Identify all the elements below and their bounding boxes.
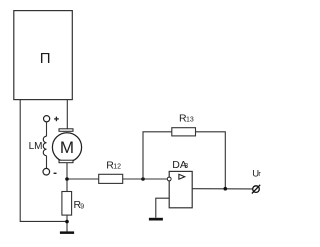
node junction motor/R12 bbox=[65, 177, 69, 181]
inverting input bubble bbox=[167, 177, 171, 181]
node + terminal of LM bbox=[44, 116, 50, 122]
brush bottom bbox=[59, 160, 73, 163]
brush top bbox=[59, 129, 73, 132]
svg-text:9: 9 bbox=[80, 203, 84, 210]
node output junction bbox=[224, 187, 228, 191]
ground bottom bbox=[60, 231, 74, 234]
node junction R12/feedback bbox=[141, 177, 145, 181]
wire LM top lead bbox=[46, 122, 48, 136]
svg-text:Π: Π bbox=[40, 50, 51, 67]
svg-text:3: 3 bbox=[184, 163, 188, 170]
node bottom junction bbox=[65, 220, 69, 224]
resistor R13 bbox=[172, 112, 196, 135]
wire feedback loop bbox=[143, 132, 225, 189]
op-amp DA3 bbox=[169, 159, 192, 208]
wire non-inverting input bbox=[156, 198, 169, 218]
svg-text:12: 12 bbox=[113, 164, 121, 171]
svg-text:LM: LM bbox=[29, 141, 43, 152]
inductor LM winding bbox=[43, 136, 46, 156]
wire output bbox=[192, 188, 253, 190]
minus sign bbox=[54, 172, 57, 174]
wire main horizontal to op-amp bbox=[67, 178, 167, 180]
svg-text:M: M bbox=[60, 138, 74, 157]
motor M armature bbox=[52, 133, 81, 162]
wire П to motor top bbox=[66, 100, 68, 129]
wire motor bottom to R9 bbox=[66, 163, 68, 192]
terminal Uг bbox=[252, 168, 262, 193]
svg-text:13: 13 bbox=[186, 117, 194, 124]
ground op-amp bbox=[149, 218, 163, 221]
wire left bypass from П to bottom node bbox=[20, 100, 67, 222]
block П (converter) bbox=[14, 11, 73, 100]
node - terminal of LM bbox=[43, 168, 50, 175]
resistor R9 bbox=[62, 192, 84, 216]
resistor R12 bbox=[99, 160, 123, 184]
plus sign bbox=[54, 117, 59, 122]
svg-text:г: г bbox=[258, 171, 261, 178]
wire R9 to bottom node bbox=[66, 215, 68, 232]
wire LM bottom lead bbox=[46, 156, 48, 169]
